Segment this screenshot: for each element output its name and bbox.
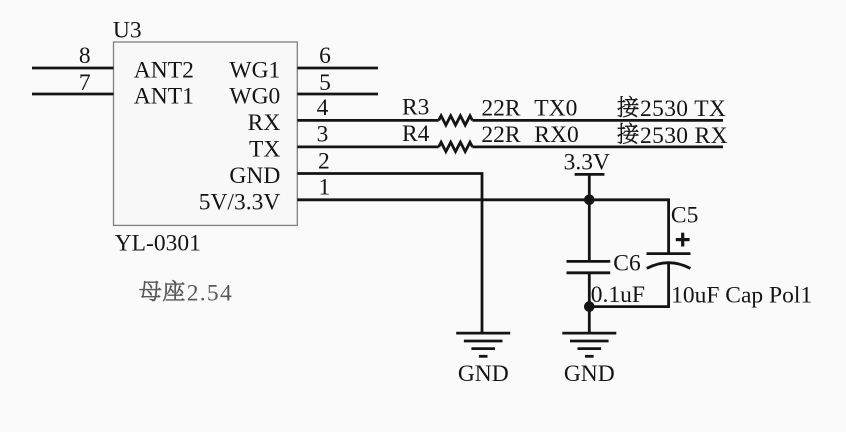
capacitor C5 (polarized)	[647, 254, 691, 269]
pin 1 wire (5V/3.3V) power rail	[297, 198, 668, 201]
pin 5 wire (WG0)	[297, 93, 378, 96]
svg-text:5: 5	[319, 70, 331, 96]
wire R4 to RX0 annotation	[472, 145, 723, 148]
svg-text:C6: C6	[613, 251, 641, 277]
svg-text:7: 7	[79, 70, 91, 96]
svg-text:10uF Cap Pol1: 10uF Cap Pol1	[671, 283, 812, 309]
svg-text:TX0: TX0	[534, 95, 577, 121]
svg-text:1: 1	[319, 175, 331, 201]
pin 3 wire (TX) to R4	[297, 145, 438, 148]
svg-text:GND: GND	[229, 163, 280, 189]
resistor R3	[439, 116, 473, 125]
svg-text:2530 TX: 2530 TX	[640, 96, 726, 122]
svg-text:GND: GND	[564, 361, 615, 387]
ground symbol (capacitors)	[562, 333, 616, 356]
svg-text:R3: R3	[402, 95, 429, 121]
capacitor C6	[567, 261, 611, 272]
svg-text:22R: 22R	[481, 122, 521, 148]
wire C5 bottom to junction	[589, 263, 668, 307]
svg-text:2: 2	[318, 148, 330, 174]
wire C6 to ground	[588, 273, 591, 333]
ground symbol (pin 2)	[456, 333, 510, 356]
pin 8 wire (ANT2)	[32, 67, 114, 70]
svg-text:6: 6	[319, 43, 331, 69]
svg-text:TX: TX	[249, 136, 280, 162]
annotation 接2530 RX	[618, 123, 728, 149]
svg-text:U3: U3	[113, 17, 142, 43]
svg-text:8: 8	[79, 43, 91, 69]
svg-text:22R: 22R	[481, 95, 521, 121]
svg-text:WG0: WG0	[229, 84, 280, 110]
wire rail to C6	[588, 200, 591, 262]
C5 plus polarity mark	[676, 233, 690, 247]
wire R3 to TX0 annotation	[472, 119, 723, 122]
svg-text:2530 RX: 2530 RX	[640, 123, 728, 149]
power symbol 3.3V bar and stem	[575, 174, 605, 199]
svg-text:RX: RX	[248, 110, 281, 136]
svg-text:4: 4	[317, 95, 329, 121]
resistor R4	[439, 142, 473, 151]
junction node below C6	[584, 301, 595, 312]
svg-text:ANT2: ANT2	[134, 58, 194, 84]
pin 7 wire (ANT1)	[32, 93, 114, 96]
junction node at 3.3V rail	[584, 195, 595, 206]
svg-text:C5: C5	[671, 202, 698, 228]
pin 2 wire (GND) down to ground	[297, 174, 482, 334]
svg-text:5V/3.3V: 5V/3.3V	[199, 189, 281, 215]
annotation 接2530 TX	[618, 96, 727, 122]
svg-text:3.3V: 3.3V	[564, 150, 610, 176]
svg-text:ANT1: ANT1	[134, 84, 194, 110]
svg-text:YL-0301: YL-0301	[115, 230, 201, 256]
svg-text:WG1: WG1	[229, 58, 280, 84]
svg-text:R4: R4	[402, 121, 430, 147]
component U3 body	[114, 42, 298, 225]
pin 6 wire (WG1)	[297, 67, 378, 70]
svg-text:RX0: RX0	[534, 122, 578, 148]
annotation 母座2.54 (gray)	[140, 280, 233, 306]
svg-text:3: 3	[317, 122, 329, 148]
svg-text:0.1uF: 0.1uF	[591, 282, 645, 308]
pin 4 wire (RX) to R3	[297, 119, 438, 122]
svg-text:GND: GND	[458, 361, 509, 387]
wire rail to C5	[667, 198, 670, 253]
svg-text:2.54: 2.54	[187, 280, 233, 306]
